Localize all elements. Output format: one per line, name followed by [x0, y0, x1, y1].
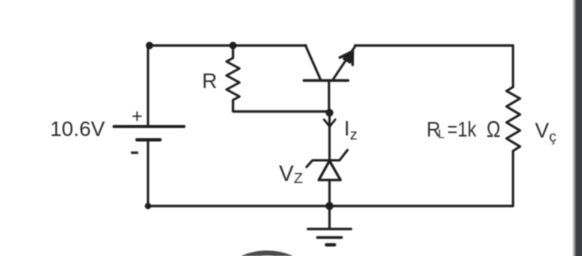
wire zener top lead: [328, 111, 330, 160]
ground stem: [328, 206, 330, 229]
junction node R top: [229, 42, 236, 49]
svg-text:R: R: [202, 70, 217, 93]
wire battery top lead: [147, 46, 149, 127]
zener diode VZ cathode bar: [307, 150, 348, 167]
junction node top left: [146, 42, 153, 49]
svg-text:Iz: Iz: [344, 118, 357, 144]
svg-text:VZ: VZ: [279, 161, 303, 187]
transistor Q1 emitter arrowhead: [340, 51, 353, 65]
resistor R1 (R): [227, 46, 240, 112]
battery V1 positive plate: [114, 125, 184, 128]
ground bar 1: [308, 228, 351, 231]
dark sidebar right edge: [572, 0, 582, 256]
wire top rail left: [148, 44, 306, 46]
wire load branch right: [512, 46, 514, 88]
svg-text:10.6V: 10.6V: [50, 118, 105, 141]
transistor Q1 emitter: [333, 47, 355, 80]
svg-text:Ω: Ω: [487, 116, 501, 142]
transistor Q1 collector: [306, 46, 321, 80]
junction node bottom left: [145, 203, 151, 209]
svg-text:=1k: =1k: [447, 119, 476, 142]
transistor Q1 base bar: [304, 79, 348, 82]
zener diode VZ anode triangle: [319, 161, 341, 180]
transistor Q1 base lead: [328, 81, 330, 113]
wire load branch lower: [512, 155, 514, 206]
annotation arc bottom: [204, 253, 330, 256]
wire zener bottom lead: [328, 180, 330, 206]
junction node ground: [326, 202, 334, 210]
resistor RL zigzag: [507, 87, 521, 155]
wire battery bottom lead: [147, 140, 149, 206]
svg-text:Vç: Vç: [535, 120, 557, 146]
wire top rail right: [355, 44, 513, 46]
battery V1 negative plate: [137, 138, 160, 141]
ground bar 3: [327, 243, 335, 246]
current arrow Iz: [324, 120, 335, 127]
junction node base: [326, 109, 334, 117]
svg-text:+: +: [132, 107, 143, 128]
wire bottom rail: [148, 205, 513, 207]
wire base feed: [233, 110, 329, 112]
ground bar 2: [318, 236, 342, 239]
svg-text:L: L: [438, 129, 445, 141]
label battery minus: [131, 151, 138, 154]
